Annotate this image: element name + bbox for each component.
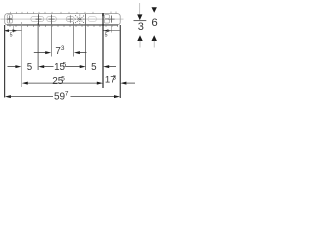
slot 3	[47, 16, 57, 21]
dimension 59.7 left arrow	[5, 95, 11, 98]
hole cross 6	[109, 16, 115, 23]
arrow tip at x=21.5 pointing right	[15, 65, 21, 68]
svg-text:5: 5	[61, 75, 65, 82]
vertical dim 6: down arrow	[152, 7, 157, 13]
dimension 25.5 right arrow	[97, 82, 103, 85]
rail top serration ticks	[11, 12, 117, 14]
right small arrow (to line 103)	[104, 29, 109, 32]
extension line x=73.5	[73, 22, 75, 57]
arrow tip at x=38 pointing left	[38, 65, 44, 68]
dimension 7.3 right arrow	[74, 51, 80, 54]
dimension row y=66.5: tail left	[8, 66, 17, 68]
punch hole upper (left end)	[7, 15, 12, 19]
extension line x=51.5	[51, 23, 53, 57]
rail bottom serration ticks	[10, 25, 118, 27]
vertical dim 3: reference stub	[134, 20, 147, 22]
rail centerline	[1, 18, 124, 20]
dimension 7.3 right tail	[80, 52, 87, 54]
svg-text:5: 5	[91, 62, 97, 73]
svg-text:5: 5	[63, 62, 67, 69]
vertical dim 3: up arrow	[137, 35, 142, 41]
right edge small dimension line	[104, 30, 120, 32]
hole cross 3	[49, 15, 55, 25]
svg-text:3: 3	[113, 74, 117, 81]
extension line x=103	[102, 16, 104, 88]
tab mark at x=103 on rail	[102, 13, 104, 16]
hatched fixing hole	[75, 15, 85, 24]
slot 5 (faint)	[88, 16, 97, 21]
arrow tip at x=85.5 pointing right	[80, 65, 86, 68]
dimension 59.7 line left	[11, 96, 54, 98]
vertical dim 3: upper stem	[139, 3, 141, 15]
svg-text:3: 3	[61, 45, 65, 52]
vertical dim 6: up arrow	[152, 35, 157, 41]
left edge small dimension line	[4, 30, 22, 32]
dimension 7.3 left arrow	[45, 51, 51, 54]
dimension 59.7 line right	[71, 96, 115, 98]
dimension 25.5 line	[28, 82, 98, 84]
tail right 109-116	[109, 66, 116, 68]
svg-text:7: 7	[65, 91, 69, 98]
line 44-53.5	[44, 66, 54, 68]
vertical dim 3: lower stem	[139, 41, 141, 48]
slot 2	[31, 16, 44, 21]
right small arrow (to slot edge)	[107, 30, 112, 32]
extension line x=21.5	[21, 22, 23, 87]
dimension 59.7 right arrow	[114, 95, 120, 98]
arrow tip at x=103 pointing left	[103, 65, 109, 68]
punch hole lower (right end)	[104, 20, 109, 24]
svg-text:6: 6	[151, 17, 157, 29]
punch hole upper (right end)	[104, 15, 109, 19]
dimension 7.3 line left tail	[34, 52, 46, 54]
slot 4	[66, 16, 74, 21]
svg-text:3: 3	[138, 21, 144, 33]
hole cross 4	[67, 15, 73, 22]
line 65-80	[65, 66, 80, 68]
extension line x=13.5 (slot edge, short)	[13, 26, 15, 33]
dimension 17.3 right tail	[126, 82, 135, 84]
dimension 17.3 right arrow	[120, 82, 126, 85]
svg-text:5: 5	[10, 33, 13, 39]
vertical dim 6: lower stem	[153, 41, 155, 48]
left small arrow (to edge)	[4, 29, 9, 32]
extension line x=111.5 (slot edge, short)	[111, 26, 113, 33]
hole cross 2	[36, 14, 42, 24]
svg-text:59: 59	[54, 92, 66, 103]
svg-text:5: 5	[27, 62, 33, 73]
hole cross 1	[7, 16, 13, 23]
left small arrow (to slot edge)	[13, 29, 18, 32]
extension line x=85.5	[85, 14, 87, 70]
punch hole lower (left end)	[7, 20, 12, 24]
extension line x=38	[37, 23, 39, 70]
extension line x=120	[119, 25, 121, 98]
rail outline	[5, 14, 121, 25]
dimension 25.5 left arrow	[22, 82, 28, 85]
svg-text:5: 5	[105, 33, 108, 39]
extension line x=5	[4, 25, 6, 98]
vertical dim 3: down arrow	[137, 14, 142, 20]
rail bottom edge (darker)	[7, 24, 118, 26]
